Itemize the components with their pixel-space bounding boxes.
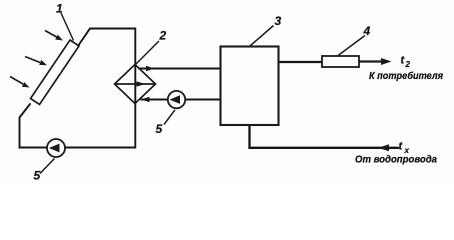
svg-text:2: 2: [405, 60, 411, 69]
svg-text:t: t: [399, 141, 404, 153]
label 4 leader line: [338, 36, 365, 56]
pump 5 (tank loop): circle with left triangle: [168, 91, 185, 108]
flow arrow on bottom line at heat exchanger (left): [141, 97, 150, 103]
sun ray arrow (middle): [25, 57, 47, 66]
svg-text:4: 4: [363, 24, 371, 38]
sun ray arrow (top): [45, 31, 63, 41]
pump 5 (collector loop, bottom left): circle with left triangle: [47, 139, 65, 157]
label 5 leader line (left pump): [40, 159, 55, 174]
sun ray arrow (bottom): [10, 77, 30, 88]
wire tank to valve 4 (hot outlet): [279, 61, 323, 63]
heat exchanger 2 (diamond with cross): [115, 65, 156, 104]
svg-text:х: х: [404, 146, 410, 155]
flow arrow on top line to tank (right): [146, 66, 155, 72]
solar collector 1 (tilted rectangle): [31, 40, 80, 105]
svg-text:1: 1: [56, 2, 63, 16]
flow arrow inside heat exchanger (right): [137, 81, 146, 87]
arrow to consumer (right): [381, 58, 392, 65]
label 3 leader line: [250, 26, 274, 47]
wire heat exchanger to tank, top (y=68.5): [139, 68, 221, 70]
svg-text:2: 2: [159, 29, 167, 43]
wire collector top to heat exchanger (hot supply, down to return): [20, 29, 136, 148]
label 2 leader line: [136, 41, 160, 65]
svg-text:5: 5: [156, 122, 163, 136]
label 1 leader line: [61, 13, 74, 41]
svg-text:5: 5: [34, 169, 41, 183]
hot outlet wire with arrow to consumer: [359, 60, 383, 62]
svg-text:3: 3: [275, 14, 282, 28]
valve 4 (small rectangle): [322, 56, 359, 67]
wire cold water supply from bottom right into tank: [250, 125, 399, 148]
storage tank 3: [221, 47, 279, 126]
svg-text:От водопровода: От водопровода: [355, 155, 437, 166]
svg-text:К потребителя: К потребителя: [369, 70, 443, 82]
arrow cold water inlet (left): [378, 144, 389, 151]
wire tank to heat exchanger, bottom (y=100): [141, 99, 221, 101]
label 5 leader line (tank loop pump): [164, 110, 175, 125]
